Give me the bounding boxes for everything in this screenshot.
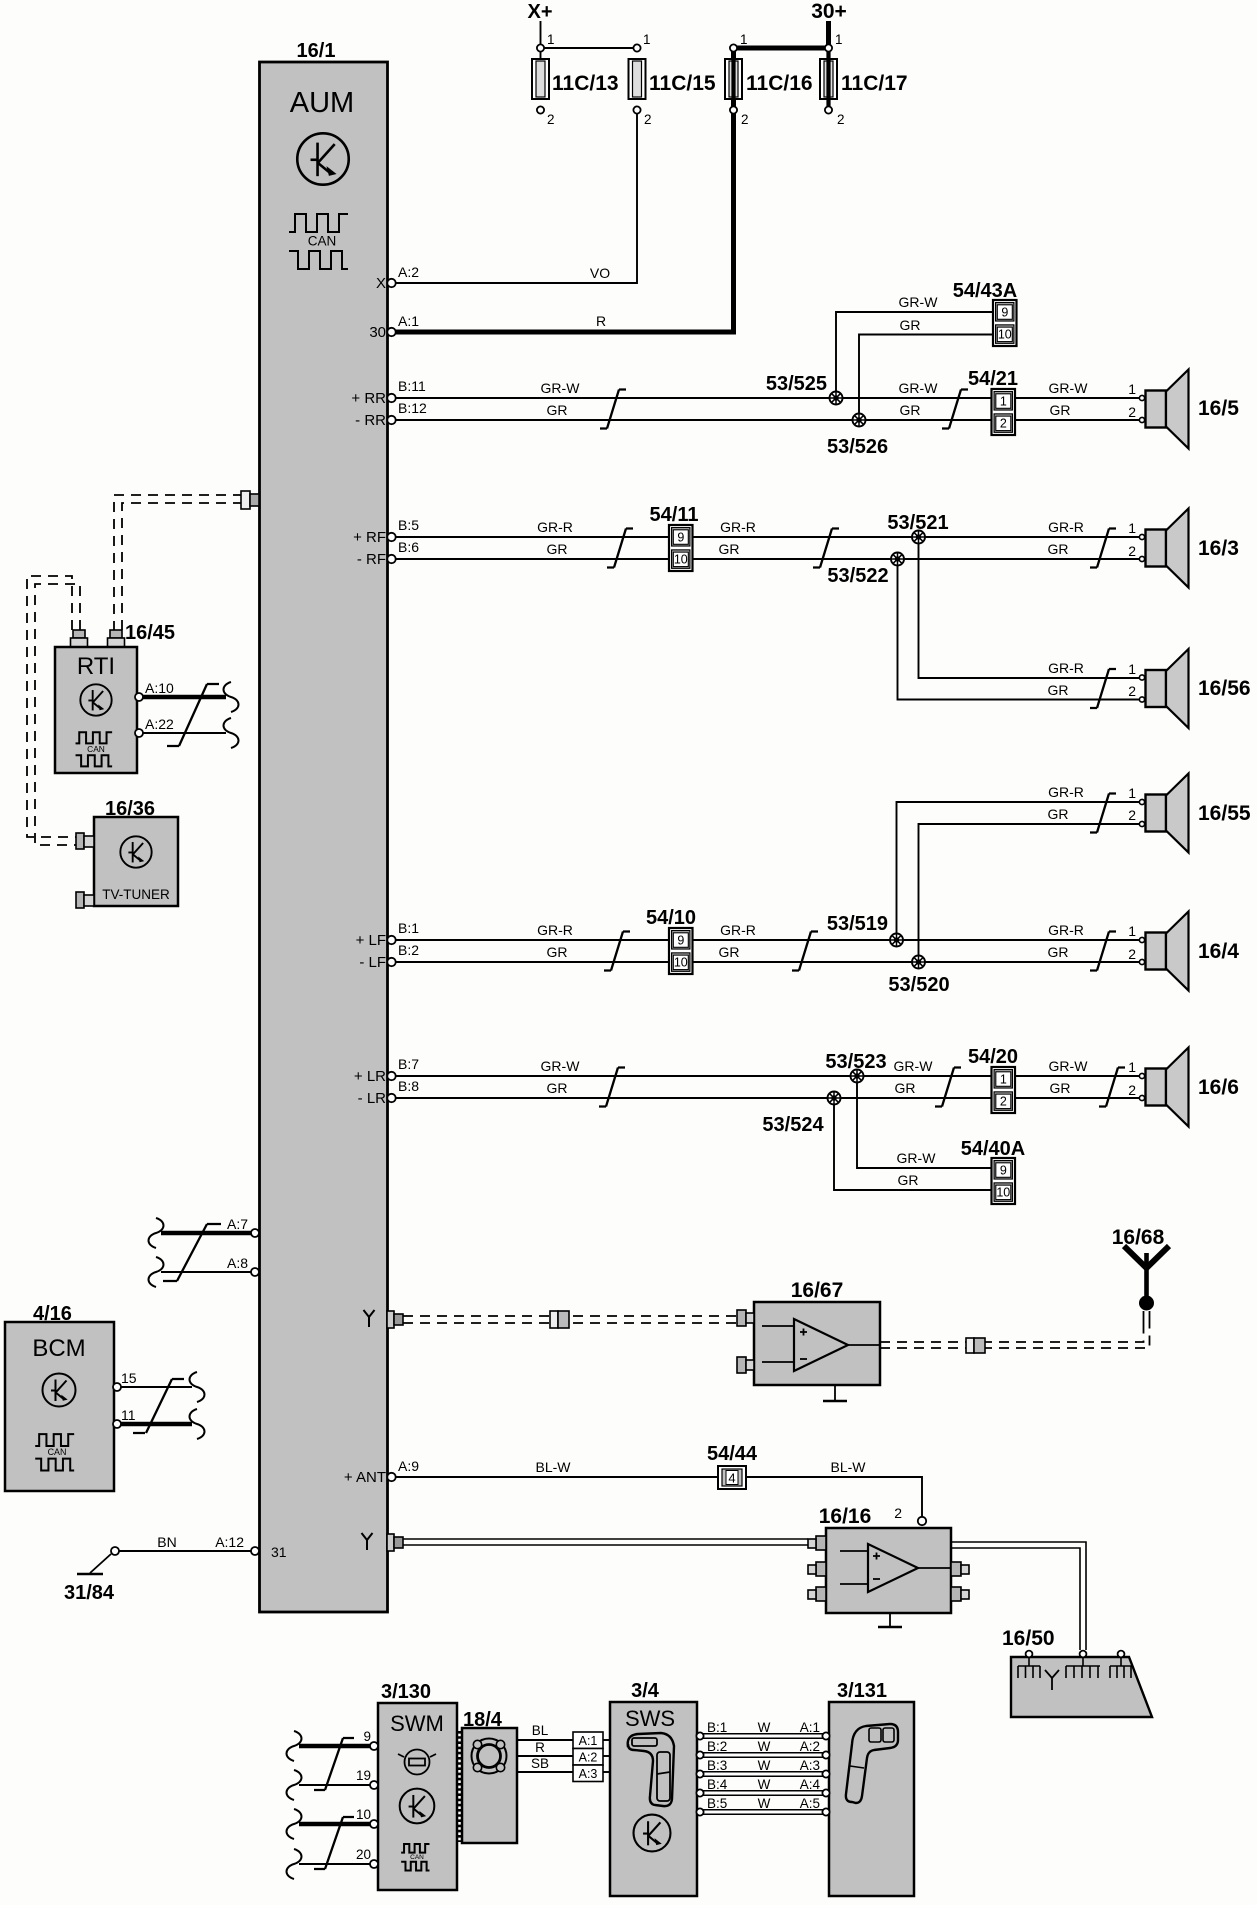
wire SB from 18/4 to A:3 xyxy=(517,1771,573,1773)
antenna symbol at AUM pin 2 xyxy=(362,1533,373,1550)
speaker 16/4 xyxy=(1139,912,1188,991)
wire B:2 GR to speaker 16/4 pin 2 xyxy=(396,961,1139,963)
svg-text:GR: GR xyxy=(900,402,921,418)
stalk button detail 1 xyxy=(869,1728,881,1742)
connector 54/43A pins 9/10 xyxy=(993,300,1017,346)
svg-text:54/43A: 54/43A xyxy=(953,280,1018,302)
wire linking 11C/13 pin1 to 11C/15 pin1 xyxy=(541,47,638,49)
svg-text:1: 1 xyxy=(547,32,555,47)
svg-text:- RF: - RF xyxy=(357,551,386,568)
ground bar of 16/67 xyxy=(823,1400,847,1403)
aerial element group 1 in 16/50 xyxy=(1018,1657,1040,1678)
svg-text:B:7: B:7 xyxy=(398,1056,419,1072)
cable marker before 16/3 xyxy=(1090,529,1116,568)
CAN symbol in BCM xyxy=(35,1434,74,1470)
plus sign in 16/67 xyxy=(800,1329,807,1336)
inline connector on output coax xyxy=(966,1338,985,1353)
wire BL from 18/4 to A:1 xyxy=(517,1739,573,1741)
svg-text:2: 2 xyxy=(1128,1082,1136,1098)
svg-text:GR-R: GR-R xyxy=(1048,519,1084,535)
svg-text:16/3: 16/3 xyxy=(1198,537,1239,560)
svg-text:16/55: 16/55 xyxy=(1198,802,1251,825)
speaker 16/5 xyxy=(1139,370,1188,449)
pin 2 of 11C/13 xyxy=(537,106,544,113)
svg-text:- LR: - LR xyxy=(358,1090,387,1107)
svg-text:16/1: 16/1 xyxy=(297,40,336,62)
ground contact circle xyxy=(111,1547,119,1555)
plug on 16/16 right 1 xyxy=(951,1562,969,1576)
svg-text:GR: GR xyxy=(900,317,921,333)
wire B:3 W to 3/131 A:3 upper line xyxy=(703,1771,823,1773)
svg-text:GR-W: GR-W xyxy=(894,1058,934,1074)
wire A:1 into SWS xyxy=(603,1739,610,1741)
clock symbol in BCM xyxy=(43,1374,76,1407)
plug on 16/16 left 2 xyxy=(808,1562,826,1576)
branch wire GR from 53/524 down to 54/40A pin 10 xyxy=(834,1104,992,1190)
svg-text:10: 10 xyxy=(674,956,688,970)
connector 54/11 pins 9/10 xyxy=(669,525,693,571)
svg-text:53/525: 53/525 xyxy=(766,373,827,395)
svg-text:W: W xyxy=(758,1720,771,1735)
svg-text:GR: GR xyxy=(547,944,568,960)
pin 1 of 11C/16 xyxy=(730,44,737,51)
svg-text:W: W xyxy=(758,1796,771,1811)
svg-text:BL-W: BL-W xyxy=(536,1459,572,1475)
AUM pin +LF (B:1) xyxy=(387,936,395,944)
AUM pin +ANT (A:9) xyxy=(387,1473,395,1481)
svg-text:TV-TUNER: TV-TUNER xyxy=(102,887,170,902)
3/131 pin A:1 xyxy=(822,1732,829,1739)
branch wire GR-W from 53/523 down to 54/40A pin 9 xyxy=(857,1082,992,1168)
3/131 pin A:3 xyxy=(822,1770,829,1777)
SWM pin 10 xyxy=(370,1820,378,1828)
coil link between SWM and 18/4 xyxy=(458,1731,463,1842)
svg-text:11C/13: 11C/13 xyxy=(552,72,619,95)
cut mark on 19 wire xyxy=(287,1770,302,1800)
svg-text:GR: GR xyxy=(1050,1080,1071,1096)
svg-text:B:12: B:12 xyxy=(398,400,427,416)
svg-text:53/521: 53/521 xyxy=(887,512,948,534)
svg-text:19: 19 xyxy=(356,1768,371,1783)
wire X+ down to fuse 11C/13 xyxy=(540,21,542,60)
AUM pin +LR (B:7) xyxy=(387,1072,395,1080)
svg-text:+ ANT: + ANT xyxy=(344,1469,386,1486)
SWS pin B:5 xyxy=(696,1808,703,1815)
wire B:7 GR-W to speaker 16/6 pin 1 xyxy=(396,1075,1139,1077)
cut mark on 15 wire xyxy=(190,1372,205,1402)
thick wire to SWM 10 xyxy=(299,1822,370,1827)
svg-text:1: 1 xyxy=(1128,381,1136,397)
connector 54/44 pin 4 xyxy=(718,1466,746,1489)
antenna 16/68 left arm xyxy=(1124,1246,1147,1268)
svg-text:54/21: 54/21 xyxy=(968,368,1018,390)
svg-text:1: 1 xyxy=(1128,661,1136,677)
wire from RTI A:22 xyxy=(143,732,226,734)
svg-text:31: 31 xyxy=(271,1544,287,1560)
SWS pin B:2 xyxy=(696,1751,703,1758)
thick wire core through fuse 11C/16 xyxy=(731,60,735,99)
3/131 pin A:5 xyxy=(822,1808,829,1815)
plug on RTI top left xyxy=(71,630,88,650)
svg-text:B:2: B:2 xyxy=(398,942,419,958)
wire from BCM 15 xyxy=(121,1386,192,1388)
RTI pin A:10 xyxy=(135,693,143,701)
cable marker before 16/4 xyxy=(1090,932,1116,971)
minus sign in 16/16 xyxy=(873,1578,880,1580)
pin 2 of 16/50 xyxy=(1080,1651,1087,1658)
RTI 16/45 box xyxy=(55,647,137,773)
speaker 16/55 xyxy=(1139,774,1188,853)
cable marker on LF pair xyxy=(604,932,630,971)
plus sign in 16/16 xyxy=(873,1553,880,1560)
svg-text:1: 1 xyxy=(1000,394,1007,408)
svg-text:2: 2 xyxy=(1128,946,1136,962)
junction 53/523 xyxy=(851,1070,864,1083)
switch module 3/131 box xyxy=(829,1702,914,1896)
AUM pin -RF (B:6) xyxy=(387,555,395,563)
svg-text:GR: GR xyxy=(898,1172,919,1188)
wire to SWM 19 xyxy=(299,1784,370,1786)
thick wire R from 11C/16 through fuse to AUM pin 30 xyxy=(396,46,734,332)
svg-text:2: 2 xyxy=(837,112,845,127)
SWM pin 19 xyxy=(370,1781,378,1789)
wire B:2 W to 3/131 A:2 lower line xyxy=(703,1756,823,1758)
cable marker on 9/19 pair xyxy=(314,1738,354,1790)
cable marker on RTI pair xyxy=(167,684,219,746)
svg-text:GR: GR xyxy=(1048,682,1069,698)
svg-text:15: 15 xyxy=(121,1370,137,1386)
wire A:3 into SWS xyxy=(603,1771,610,1773)
svg-text:R: R xyxy=(596,313,606,329)
plug on AUM right edge (antenna 2) xyxy=(387,1534,403,1551)
antenna 16/68 mast xyxy=(1144,1253,1149,1303)
dashed coax AUM to 16/67 line1 xyxy=(403,1315,737,1317)
svg-text:B:2: B:2 xyxy=(707,1739,727,1754)
coax 16/16 to 16/50 outer xyxy=(951,1542,1086,1650)
AUM pin X (A:2) xyxy=(387,279,395,287)
connector 54/21 pins 1/2 xyxy=(992,389,1016,435)
pin 1 of 11C/17 xyxy=(825,44,832,51)
AUM pin +RF (B:5) xyxy=(387,533,395,541)
wire BL-W from 54/44 to 16/16 pin 2 xyxy=(746,1477,922,1516)
pin 1 of 11C/15 xyxy=(633,44,640,51)
thick wire 30+ down xyxy=(826,21,831,48)
svg-text:53/520: 53/520 xyxy=(888,974,949,996)
dashed link AUM to RTI outer line xyxy=(114,495,243,630)
SWS pin B:1 xyxy=(696,1732,703,1739)
svg-text:A:2: A:2 xyxy=(398,264,419,280)
junction 53/524 xyxy=(828,1092,841,1105)
svg-text:X: X xyxy=(376,275,386,292)
cable marker on BCM pair xyxy=(133,1379,184,1433)
svg-text:B:1: B:1 xyxy=(398,920,419,936)
aerial element group 3 in 16/50 xyxy=(1110,1657,1132,1678)
wire to SWM 20 xyxy=(299,1863,370,1865)
antenna 16/68 right arm xyxy=(1147,1246,1170,1268)
wire B:5 W to 3/131 A:5 lower line xyxy=(703,1813,823,1815)
branch wire GR from 53/520 up to 16/55 pin 2 xyxy=(919,824,1140,956)
wire VO from 11C/15 pin2 to AUM pin X xyxy=(396,114,637,283)
svg-text:11C/15: 11C/15 xyxy=(649,72,716,95)
svg-text:GR-W: GR-W xyxy=(541,380,581,396)
svg-text:11: 11 xyxy=(121,1407,136,1423)
svg-text:9: 9 xyxy=(677,530,684,544)
svg-text:AUM: AUM xyxy=(290,87,354,119)
pin 1 of 11C/13 xyxy=(537,44,544,51)
stalk switch symbol in SWS xyxy=(628,1733,674,1806)
svg-text:A:12: A:12 xyxy=(215,1534,244,1550)
svg-text:CAN: CAN xyxy=(48,1447,67,1457)
clock symbol in AUM xyxy=(297,133,348,184)
svg-text:53/524: 53/524 xyxy=(762,1114,824,1136)
wire B:8 GR to speaker 16/6 pin 2 xyxy=(396,1097,1139,1099)
dashed link AUM to RTI inner line xyxy=(122,503,243,630)
svg-text:3/130: 3/130 xyxy=(381,1681,431,1703)
ground lead 31/84 xyxy=(90,1554,111,1573)
svg-text:53/523: 53/523 xyxy=(825,1051,886,1073)
svg-text:- LF: - LF xyxy=(359,954,386,971)
branch wire GR from 53/526 up to 54/43A pin 10 xyxy=(859,335,993,415)
coax line AUM to 16/16 upper xyxy=(403,1538,808,1540)
svg-text:2: 2 xyxy=(894,1505,902,1521)
svg-text:2: 2 xyxy=(1128,807,1136,823)
junction 53/521 xyxy=(912,531,925,544)
plug on AUM right edge (antenna 1) xyxy=(387,1311,403,1328)
svg-text:54/11: 54/11 xyxy=(650,504,699,526)
connector 54/20 pins 1/2 xyxy=(992,1067,1016,1113)
plug on 16/67 input lower xyxy=(737,1357,754,1373)
cable marker on RF pair xyxy=(607,529,633,568)
svg-text:11C/16: 11C/16 xyxy=(746,72,813,95)
svg-text:GR-R: GR-R xyxy=(720,922,756,938)
cable marker on LR pair xyxy=(599,1068,625,1107)
speaker 16/3 xyxy=(1139,509,1188,588)
svg-text:54/10: 54/10 xyxy=(646,907,696,929)
cut mark on 9 wire xyxy=(287,1731,302,1761)
dashed loop RTI to TV-tuner outer line xyxy=(27,576,76,837)
svg-text:R: R xyxy=(535,1740,545,1755)
speaker 16/6 xyxy=(1139,1048,1188,1127)
svg-text:A:8: A:8 xyxy=(227,1255,248,1271)
svg-text:GR: GR xyxy=(719,944,740,960)
clock symbol in SWM xyxy=(400,1789,435,1824)
wire B:1 W to 3/131 A:1 upper line xyxy=(703,1733,823,1735)
svg-text:9: 9 xyxy=(1001,305,1008,319)
svg-text:SB: SB xyxy=(531,1756,549,1771)
connector A:2 xyxy=(573,1749,603,1766)
connector 54/10 pins 9/10 xyxy=(669,928,693,974)
svg-text:2: 2 xyxy=(741,112,749,127)
svg-text:B:5: B:5 xyxy=(707,1796,727,1811)
svg-text:2: 2 xyxy=(1128,543,1136,559)
svg-text:GR-W: GR-W xyxy=(897,1150,937,1166)
svg-text:GR: GR xyxy=(547,1080,568,1096)
plug on RTI top right xyxy=(108,630,125,650)
svg-text:GR-W: GR-W xyxy=(1049,1058,1089,1074)
svg-text:16/56: 16/56 xyxy=(1198,677,1251,700)
wire B:12 GR to speaker 16/5 pin 2 xyxy=(396,419,1139,421)
steering wheel module 3/130 box xyxy=(378,1703,457,1890)
svg-text:4: 4 xyxy=(728,1471,735,1486)
svg-text:53/519: 53/519 xyxy=(827,913,888,935)
dashed loop RTI to TV-tuner inner line xyxy=(35,584,80,845)
clock symbol in SWS xyxy=(634,1815,671,1852)
input line + in 16/67 xyxy=(762,1325,794,1327)
svg-text:BN: BN xyxy=(157,1534,176,1550)
AUM pin 30 (A:1) xyxy=(387,328,395,336)
svg-text:3/4: 3/4 xyxy=(631,1680,660,1702)
svg-text:VO: VO xyxy=(590,265,610,281)
svg-text:1: 1 xyxy=(835,32,843,47)
connector A:1 xyxy=(573,1732,603,1749)
aerial module 16/50 body xyxy=(1011,1657,1152,1717)
cut mark on 20 wire xyxy=(287,1849,302,1879)
junction 53/520 xyxy=(912,956,925,969)
svg-text:BL: BL xyxy=(532,1723,549,1738)
SWS pin B:3 xyxy=(696,1770,703,1777)
svg-text:X+: X+ xyxy=(527,1,552,23)
svg-text:GR: GR xyxy=(719,541,740,557)
svg-text:10: 10 xyxy=(996,1186,1010,1200)
svg-text:SWM: SWM xyxy=(390,1711,444,1736)
svg-text:- RR: - RR xyxy=(355,412,386,429)
pin 2 of 11C/17 xyxy=(825,106,832,113)
dashed coax 16/67 to antenna line2 xyxy=(880,1328,1150,1348)
connector face symbol in 18/4 xyxy=(472,1739,507,1774)
wire B:6 GR to speaker 16/3 pin 2 xyxy=(396,558,1139,560)
fuse 11C/13 xyxy=(532,59,549,99)
AUM pin -RR (B:12) xyxy=(387,416,395,424)
wire B:4 W to 3/131 A:4 lower line xyxy=(703,1794,823,1796)
svg-text:54/40A: 54/40A xyxy=(961,1138,1026,1160)
steering wheel switch 3/4 box xyxy=(610,1702,697,1896)
svg-text:1: 1 xyxy=(1128,520,1136,536)
cable marker before 54/20 xyxy=(935,1068,961,1107)
svg-text:A:1: A:1 xyxy=(398,313,419,329)
svg-text:GR: GR xyxy=(1050,402,1071,418)
cable marker before 16/6 xyxy=(1099,1068,1125,1107)
RTI pin A:22 xyxy=(135,729,143,737)
svg-text:1: 1 xyxy=(1128,1059,1136,1075)
svg-text:CAN: CAN xyxy=(410,1854,424,1861)
wire R from 18/4 to A:2 xyxy=(517,1755,573,1757)
svg-text:16/50: 16/50 xyxy=(1002,1627,1055,1650)
TV-tuner 16/36 box xyxy=(94,817,178,906)
svg-text:16/45: 16/45 xyxy=(125,622,175,644)
SWM pin 20 xyxy=(370,1860,378,1868)
svg-text:53/522: 53/522 xyxy=(827,565,888,587)
thick wire stub through fuse 11C/17 xyxy=(826,48,830,107)
svg-text:SWS: SWS xyxy=(625,1706,675,1731)
input line - in 16/67 xyxy=(762,1361,794,1363)
SWM pin 9 xyxy=(370,1742,378,1750)
cable marker before 16/55 xyxy=(1090,794,1116,833)
thick wire from BCM 11 xyxy=(121,1422,192,1427)
aerial element group 2 in 16/50 xyxy=(1066,1657,1100,1678)
wire BN from ground to AUM pin 31 xyxy=(119,1550,251,1552)
SWS pin B:4 xyxy=(696,1789,703,1796)
junction 53/526 xyxy=(853,414,866,427)
svg-text:GR: GR xyxy=(547,402,568,418)
svg-text:16/4: 16/4 xyxy=(1198,940,1239,963)
junction 53/525 xyxy=(830,392,843,405)
plug on 16/67 input upper xyxy=(737,1310,754,1326)
aerial Y element in 16/50 xyxy=(1045,1670,1059,1690)
AUM pin 31 (A:12) xyxy=(251,1547,259,1555)
svg-text:A:1: A:1 xyxy=(800,1720,820,1735)
svg-text:2: 2 xyxy=(644,112,652,127)
svg-text:53/526: 53/526 xyxy=(827,436,888,458)
plug on 16/16 right 2 xyxy=(951,1587,969,1601)
cable marker after 54/11 xyxy=(813,529,839,568)
dashed coax AUM to 16/67 line2 xyxy=(403,1322,737,1324)
svg-text:+ RF: + RF xyxy=(353,529,386,546)
wire B:5 GR-R to speaker 16/3 pin 1 xyxy=(396,536,1139,538)
wire B:5 W to 3/131 A:5 upper line xyxy=(703,1809,823,1811)
thick wire linking 30+ to 11C/16 pin1 xyxy=(734,46,829,51)
3/131 pin A:4 xyxy=(822,1789,829,1796)
connector A:3 xyxy=(573,1765,603,1782)
svg-text:10: 10 xyxy=(356,1807,371,1822)
op-amp triangle in 16/16 xyxy=(868,1544,918,1592)
coax line AUM to 16/16 lower xyxy=(403,1544,808,1546)
wire B:4 W to 3/131 A:4 upper line xyxy=(703,1790,823,1792)
svg-text:B:8: B:8 xyxy=(398,1078,419,1094)
dashed coax 16/67 to antenna line1 xyxy=(880,1328,1144,1342)
branch wire GR-R from 53/519 up to 16/55 pin 1 xyxy=(897,802,1140,934)
branch wire GR-R from 53/521 down to 16/56 pin 1 xyxy=(919,543,1140,678)
wire B:1 GR-R to speaker 16/4 pin 1 xyxy=(396,939,1139,941)
svg-text:GR-W: GR-W xyxy=(899,294,939,310)
clock symbol in RTI xyxy=(80,684,111,715)
svg-text:GR-W: GR-W xyxy=(541,1058,581,1074)
svg-text:1: 1 xyxy=(1128,785,1136,801)
svg-text:16/16: 16/16 xyxy=(819,1505,872,1528)
svg-text:A:3: A:3 xyxy=(579,1767,598,1781)
amplifier 16/16 box xyxy=(826,1528,951,1613)
cable marker on RR pair xyxy=(600,390,626,429)
svg-text:W: W xyxy=(758,1758,771,1773)
stalk symbol in 3/131 xyxy=(846,1724,898,1803)
svg-text:16/67: 16/67 xyxy=(791,1279,844,1302)
svg-text:GR: GR xyxy=(1048,541,1069,557)
op-amp triangle in 16/67 xyxy=(794,1319,848,1371)
minus sign in 16/67 xyxy=(800,1358,807,1360)
svg-text:54/20: 54/20 xyxy=(968,1046,1018,1068)
svg-text:GR: GR xyxy=(1048,806,1069,822)
svg-text:GR-R: GR-R xyxy=(1048,784,1084,800)
svg-text:A:9: A:9 xyxy=(398,1458,419,1474)
pin 3 of 16/50 xyxy=(1118,1651,1125,1658)
svg-text:GR-R: GR-R xyxy=(1048,660,1084,676)
thick wire to SWM 9 xyxy=(299,1744,370,1749)
svg-text:B:3: B:3 xyxy=(707,1758,727,1773)
ground lead of 16/16 xyxy=(889,1613,891,1626)
svg-text:CAN: CAN xyxy=(87,744,105,754)
svg-text:B:5: B:5 xyxy=(398,517,419,533)
wire B:1 W to 3/131 A:1 lower line xyxy=(703,1737,823,1739)
wire BL-W from A:9 to 54/44 xyxy=(396,1476,718,1478)
AUM pin A:8 xyxy=(251,1268,259,1276)
cable marker after 54/10 xyxy=(792,932,818,971)
plug on 16/16 left 1 xyxy=(808,1536,826,1550)
plug on TV-tuner left upper xyxy=(76,833,94,849)
svg-text:2: 2 xyxy=(1000,1095,1007,1109)
svg-text:A:3: A:3 xyxy=(800,1758,820,1773)
svg-text:31/84: 31/84 xyxy=(64,1582,115,1604)
cable marker on 10/20 pair xyxy=(314,1817,354,1869)
junction 53/522 xyxy=(891,553,904,566)
